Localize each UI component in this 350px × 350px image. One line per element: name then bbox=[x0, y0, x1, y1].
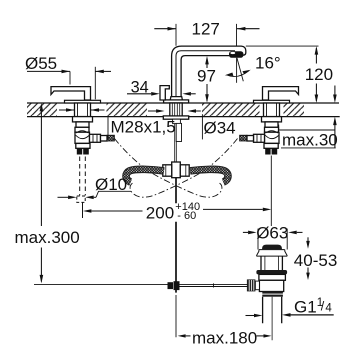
svg-text:200: 200 bbox=[146, 203, 174, 222]
svg-text:max.300: max.300 bbox=[15, 228, 80, 247]
svg-text:16°: 16° bbox=[255, 54, 281, 73]
svg-text:127: 127 bbox=[192, 19, 220, 38]
svg-text:M28x1,5: M28x1,5 bbox=[111, 117, 176, 136]
svg-text:G1: G1 bbox=[294, 297, 317, 316]
svg-text:40-53: 40-53 bbox=[294, 251, 337, 270]
svg-text:4: 4 bbox=[325, 302, 332, 314]
svg-text:97: 97 bbox=[197, 67, 216, 86]
svg-text:Ø34: Ø34 bbox=[204, 119, 236, 138]
svg-text:max.30: max.30 bbox=[282, 131, 338, 150]
svg-text:/: / bbox=[321, 300, 325, 314]
svg-text:max.180: max.180 bbox=[192, 328, 257, 347]
svg-text:120: 120 bbox=[305, 65, 333, 84]
svg-text:Ø55: Ø55 bbox=[25, 54, 57, 73]
svg-text:34: 34 bbox=[131, 78, 149, 96]
svg-text:Ø63: Ø63 bbox=[256, 224, 288, 243]
svg-text:- 60: - 60 bbox=[177, 210, 196, 222]
svg-text:Ø10: Ø10 bbox=[95, 175, 127, 194]
